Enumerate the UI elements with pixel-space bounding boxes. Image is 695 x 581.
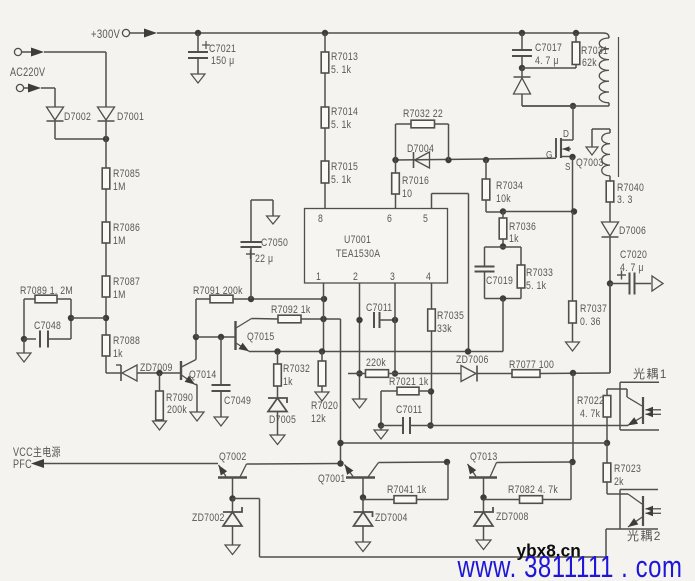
svg-text:2: 2 (353, 271, 358, 283)
svg-text:光耦1: 光耦1 (633, 367, 668, 381)
svg-text:ZD7008: ZD7008 (496, 511, 529, 523)
svg-text:R7032: R7032 (283, 363, 310, 375)
svg-text:3: 3 (390, 271, 395, 283)
svg-text:Q7001: Q7001 (318, 473, 346, 485)
svg-text:8: 8 (318, 213, 323, 225)
svg-text:12k: 12k (311, 413, 326, 425)
svg-text:ZD7004: ZD7004 (375, 512, 408, 524)
svg-text:R7022: R7022 (577, 395, 604, 407)
svg-text:R7086: R7086 (113, 222, 140, 234)
svg-text:5. 1k: 5. 1k (331, 64, 352, 76)
svg-text:D7005: D7005 (269, 414, 296, 426)
svg-text:1k: 1k (509, 233, 519, 245)
svg-text:6: 6 (387, 213, 392, 225)
svg-text:1k: 1k (283, 376, 293, 388)
svg-text:R7023: R7023 (614, 463, 641, 475)
svg-text:D7004: D7004 (407, 143, 434, 155)
svg-text:D: D (563, 127, 569, 139)
svg-text:1M: 1M (113, 289, 126, 301)
svg-text:R7041 1k: R7041 1k (387, 484, 427, 496)
svg-text:C7011: C7011 (396, 404, 423, 416)
svg-text:R7031: R7031 (581, 45, 608, 57)
svg-text:150 μ: 150 μ (211, 55, 234, 67)
svg-text:C7021: C7021 (209, 43, 236, 55)
svg-text:220k: 220k (366, 357, 387, 369)
svg-text:R7014: R7014 (331, 106, 358, 118)
svg-text:R7032 22: R7032 22 (403, 108, 443, 120)
svg-text:ZD7006: ZD7006 (456, 354, 489, 366)
svg-text:200k: 200k (167, 404, 188, 416)
svg-text:4. 7 μ: 4. 7 μ (620, 262, 644, 274)
svg-text:R7016: R7016 (402, 175, 429, 187)
svg-text:TEA1530A: TEA1530A (336, 248, 380, 260)
svg-text:R7088: R7088 (113, 335, 140, 347)
svg-text:R7085: R7085 (113, 168, 140, 180)
svg-text:Q7013: Q7013 (470, 451, 498, 463)
svg-text:5. 1k: 5. 1k (526, 280, 547, 292)
svg-text:R7036: R7036 (509, 221, 536, 233)
svg-text:U7001: U7001 (344, 234, 371, 246)
svg-text:C7019: C7019 (486, 275, 513, 287)
svg-text:1M: 1M (113, 235, 126, 247)
svg-text:62k: 62k (582, 57, 597, 69)
svg-text:R7034: R7034 (496, 180, 523, 192)
svg-text:R7087: R7087 (113, 276, 140, 288)
svg-text:+300V: +300V (91, 28, 120, 41)
svg-text:D7006: D7006 (619, 225, 646, 237)
svg-text:5. 1k: 5. 1k (331, 119, 352, 131)
svg-text:4: 4 (426, 271, 431, 283)
svg-text:5: 5 (423, 213, 428, 225)
svg-text:光耦2: 光耦2 (627, 529, 662, 543)
svg-text:10k: 10k (496, 193, 511, 205)
svg-text:4. 7 μ: 4. 7 μ (535, 55, 559, 67)
svg-text:C7050: C7050 (261, 237, 288, 249)
svg-text:C7020: C7020 (620, 249, 647, 261)
svg-text:R7020: R7020 (311, 400, 338, 412)
svg-text:33k: 33k (437, 323, 452, 335)
svg-text:www. 3811111 . com: www. 3811111 . com (457, 549, 683, 581)
svg-text:D7002: D7002 (64, 111, 91, 123)
svg-text:D7001: D7001 (117, 111, 144, 123)
svg-text:S: S (565, 160, 571, 172)
svg-text:22 μ: 22 μ (255, 253, 273, 265)
svg-text:0. 36: 0. 36 (580, 316, 601, 328)
svg-text:R7015: R7015 (331, 161, 358, 173)
svg-text:ZD7002: ZD7002 (192, 512, 225, 524)
svg-text:Q7002: Q7002 (219, 451, 247, 463)
svg-text:C7049: C7049 (224, 395, 251, 407)
svg-text:1: 1 (316, 271, 321, 283)
svg-text:Q7003: Q7003 (576, 157, 604, 169)
svg-text:1M: 1M (113, 181, 126, 193)
svg-text:R7033: R7033 (526, 267, 553, 279)
svg-text:10: 10 (402, 188, 412, 200)
svg-text:Q7015: Q7015 (247, 331, 275, 343)
svg-text:R7040: R7040 (617, 182, 644, 194)
svg-text:R7013: R7013 (331, 51, 358, 63)
svg-text:R7090: R7090 (166, 392, 193, 404)
svg-text:1k: 1k (113, 348, 123, 360)
svg-text:Q7014: Q7014 (189, 369, 217, 381)
svg-text:2k: 2k (614, 476, 624, 488)
svg-text:R7082 4. 7k: R7082 4. 7k (508, 484, 559, 496)
svg-text:R7035: R7035 (437, 310, 464, 322)
svg-text:C7017: C7017 (535, 42, 562, 54)
svg-text:3. 3: 3. 3 (617, 194, 633, 206)
svg-text:PFC: PFC (13, 459, 32, 471)
svg-text:R7037: R7037 (580, 303, 607, 315)
svg-text:AC220V: AC220V (10, 67, 45, 79)
svg-text:5. 1k: 5. 1k (331, 174, 352, 186)
svg-text:4. 7k: 4. 7k (580, 408, 601, 420)
svg-text:VCC主电源: VCC主电源 (13, 445, 61, 459)
